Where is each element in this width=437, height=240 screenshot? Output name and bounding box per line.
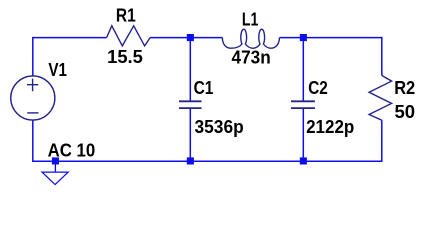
wire L1 to top-right corner: [280, 37, 383, 39]
svg-text:R1: R1: [116, 4, 136, 25]
svg-text:50: 50: [395, 101, 416, 122]
wire C2 lower stub: [302, 109, 304, 162]
wire right vertical upper: [381, 37, 383, 76]
wire C1 lower stub: [189, 109, 191, 162]
resistor R2: [369, 76, 392, 121]
node junction bottom C1: [187, 157, 194, 164]
resistor R1: [107, 26, 151, 46]
svg-text:473n: 473n: [232, 47, 271, 68]
wire C1 upper stub: [189, 38, 191, 101]
wire C2 upper stub: [302, 38, 304, 101]
svg-text:L1: L1: [242, 8, 258, 29]
svg-text:15.5: 15.5: [107, 46, 143, 67]
wire top-left horizontal: [33, 37, 107, 39]
V1 minus sign: [27, 112, 38, 114]
svg-text:V1: V1: [48, 59, 67, 80]
inductor L1: [222, 29, 279, 48]
capacitor C2: [291, 101, 315, 108]
svg-text:2122p: 2122p: [306, 116, 354, 137]
svg-text:R2: R2: [394, 77, 415, 98]
wire R1 to L1: [150, 37, 222, 39]
wire left vertical lower: [32, 120, 34, 162]
node junction top C2: [300, 34, 307, 41]
voltage source V1: [11, 76, 55, 120]
svg-text:C1: C1: [194, 77, 214, 98]
ground: [42, 172, 68, 184]
wire bottom rail: [33, 160, 383, 162]
wire right vertical lower: [381, 120, 383, 161]
svg-text:C2: C2: [308, 77, 328, 98]
capacitor C1: [179, 101, 202, 108]
svg-text:3536p: 3536p: [195, 116, 244, 137]
node junction ground: [52, 157, 59, 164]
svg-text:AC 10: AC 10: [48, 139, 96, 160]
node junction bottom C2: [300, 157, 307, 164]
V1 plus sign: [27, 79, 38, 92]
wire ground stub: [54, 161, 56, 171]
node junction top C1: [187, 34, 194, 41]
wire left vertical upper: [32, 37, 34, 76]
